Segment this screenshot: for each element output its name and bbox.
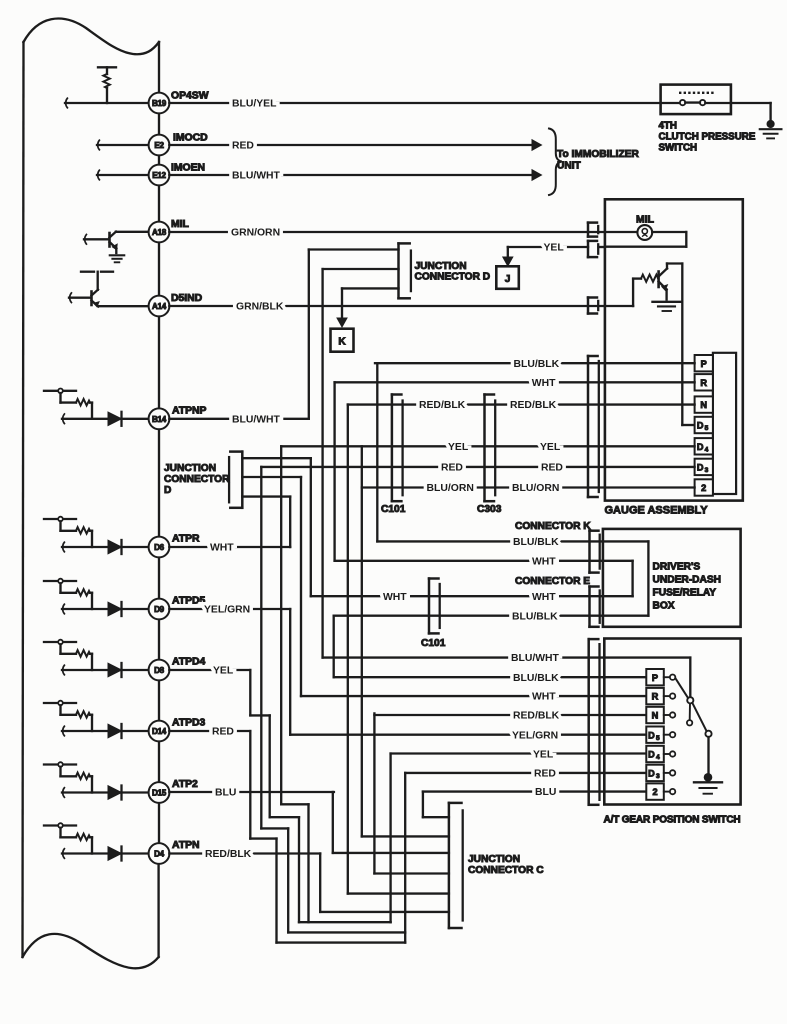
wire-break mark E12 [98, 170, 100, 180]
wire D9 stub [62, 604, 149, 614]
svg-text:RED: RED [441, 463, 463, 474]
wire WHT D6 [169, 546, 290, 548]
svg-text:ATPNP: ATPNP [172, 406, 207, 417]
svg-text:P: P [652, 673, 658, 683]
label C101 lower [421, 638, 446, 649]
transistor Q-A18 [110, 232, 118, 250]
ECM pin bus vertical wire [157, 42, 160, 957]
label IMOCD [173, 133, 208, 144]
wire BLU/YEL B19 to 4th clutch pressure switch [169, 102, 660, 104]
pin D4 [149, 843, 170, 864]
wire-break mark B19 [66, 98, 68, 108]
ECM boundary torn bottom edge [23, 934, 159, 968]
wire bottom row c [277, 941, 406, 943]
svg-text:D8: D8 [154, 666, 165, 675]
diode D-D4 [108, 847, 122, 861]
svg-text:BLU/ORN: BLU/ORN [512, 483, 559, 494]
label MIL pin [171, 219, 190, 230]
svg-text:D5IND: D5IND [171, 293, 203, 304]
svg-text:RED/BLK: RED/BLK [513, 711, 560, 722]
wire Q-gauge collector to D5 box [667, 264, 695, 426]
svg-text:IMOCD: IMOCD [173, 133, 208, 144]
wire lane A/T RED riser [404, 773, 406, 943]
wire D15 stub [62, 788, 149, 798]
wire BLU/BLK to connector K [377, 540, 603, 542]
pin D8 [149, 660, 170, 681]
wire junction connector C pin1 row [423, 816, 449, 818]
svg-text:FUSE/RELAY: FUSE/RELAY [653, 588, 717, 599]
label BLU/BLK connector K [513, 537, 559, 548]
label YEL/GRN A/T [512, 730, 558, 741]
label RED/BLK after C303 [510, 400, 557, 411]
diode D-D6 [108, 540, 122, 554]
label WHT connector E [532, 592, 556, 603]
label WHT A/T [532, 692, 556, 703]
wire junction D-left pin2 to A/T WHT lane [242, 477, 301, 696]
pin E2 [149, 135, 170, 156]
wire E12 stub [97, 174, 149, 176]
label BLU/ORN C101-C303 [427, 483, 474, 494]
resistor pull-up B19 [98, 67, 116, 103]
wire YEL to gauge D4 [281, 445, 694, 447]
svg-text:RED: RED [212, 727, 234, 738]
wire driver's box outer loop [603, 541, 649, 615]
pin D6 [149, 537, 170, 558]
svg-text:D4: D4 [154, 850, 165, 859]
wire RED/BLK to A/T switch [374, 714, 646, 716]
connector C303 [485, 395, 496, 502]
label WHT connector K [532, 556, 556, 567]
svg-text:K: K [338, 337, 346, 348]
svg-text:WHT: WHT [532, 378, 556, 389]
svg-text:B19: B19 [152, 99, 167, 108]
wire lane RED/BLK C101 to junction connector C pin5 [347, 405, 349, 894]
wire RED/BLK to gauge N [348, 403, 695, 405]
4th clutch switch contact dots [679, 92, 714, 94]
transistor Q-A18 base wire [84, 235, 109, 245]
junction box J [496, 266, 519, 289]
4th clutch switch terminal left [661, 100, 686, 105]
label DRIVER'S UNDER-DASH FUSE/RELAY BOX [653, 562, 721, 612]
svg-text:RED/BLK: RED/BLK [205, 849, 252, 860]
svg-text:D14: D14 [152, 727, 167, 736]
label ATPD3 [172, 718, 206, 729]
label JUNCTION CONNECTOR C [468, 854, 544, 876]
svg-text:GAUGE ASSEMBLY: GAUGE ASSEMBLY [605, 505, 709, 517]
wire lane BLU/ORN to junction connector C pin2 [361, 446, 363, 836]
svg-text:2: 2 [701, 483, 706, 493]
resistor gauge base [641, 275, 659, 282]
svg-text:YEL: YEL [448, 442, 469, 453]
arrow into J [503, 257, 513, 266]
svg-text:ATPR: ATPR [172, 534, 200, 545]
label GRN/BLK [236, 302, 284, 313]
pin E12 [149, 165, 170, 186]
label YEL/GRN D9 [204, 605, 250, 616]
svg-text:OP4SW: OP4SW [171, 91, 209, 102]
wire GRN/BLK A14 to gauge assembly [169, 305, 605, 307]
svg-text:WHT: WHT [210, 543, 234, 554]
wire WHT to connector E [311, 595, 603, 597]
svg-text:WHT: WHT [383, 592, 407, 603]
label BLU/YEL [232, 99, 277, 110]
transistor Q-A14 base wire [69, 293, 91, 303]
svg-text:MIL: MIL [171, 219, 190, 230]
wire driver's box inner loop [603, 561, 633, 596]
wire BLU/WHT to A/T switch [323, 656, 605, 658]
transistor Q-gauge [659, 269, 668, 291]
label BLU/BLK A/T [513, 673, 559, 684]
svg-text:CONNECTOR K: CONNECTOR K [515, 521, 591, 532]
svg-text:ATPD4: ATPD4 [172, 657, 206, 668]
svg-text:N: N [700, 400, 707, 410]
svg-text:YEL: YEL [213, 666, 234, 677]
wire MIL loop right and return [605, 232, 686, 247]
wire A/T common feed [604, 658, 690, 698]
junction connector D top [399, 243, 411, 298]
wire BLU/BLK to gauge P [375, 362, 695, 364]
svg-text:D: D [648, 769, 655, 779]
a/t pin bracket [589, 639, 600, 805]
svg-text:E12: E12 [152, 171, 166, 180]
svg-text:R: R [700, 378, 707, 388]
label RED after C303 [541, 463, 563, 474]
label A/T GEAR POSITION SWITCH [604, 815, 741, 826]
svg-text:N: N [652, 711, 659, 721]
label YEL to J [544, 243, 565, 254]
wire B19 stub [65, 102, 149, 104]
wire RED/BLK D4 [169, 852, 320, 854]
label ATP2 [172, 779, 198, 790]
label RED wire E2 [232, 141, 254, 152]
svg-text:UNDER-DASH: UNDER-DASH [653, 575, 721, 586]
gauge range pin header outer box [713, 353, 736, 494]
label RED/BLK D4 [205, 849, 252, 860]
wire MIL loop top [605, 231, 638, 233]
label BLU/WHT wire E12 [232, 171, 281, 182]
label ATPNP [172, 406, 207, 417]
wire BLU/WHT B14 [169, 418, 308, 420]
label BLU/BLK connector E [512, 611, 558, 622]
label RED A/T [534, 769, 556, 780]
svg-text:BLU/BLK: BLU/BLK [513, 673, 559, 684]
svg-text:R: R [652, 692, 659, 702]
svg-text:YEL: YEL [544, 243, 565, 254]
label GAUGE ASSEMBLY [605, 505, 709, 517]
driver's under-dash fuse/relay box [603, 529, 741, 627]
label ATPD4 [172, 657, 206, 668]
wire YEL jog lane from D8 [250, 670, 299, 922]
wire E2 stub [97, 144, 149, 146]
wire lane A/T RED/BLK to junction connector C pin4 [373, 713, 375, 873]
wire junction connector D to K [342, 288, 399, 318]
pin B14 [149, 408, 170, 429]
wire B14 stub [62, 414, 149, 424]
a/t switch contacts [664, 675, 676, 795]
transistor Q-A14 [92, 290, 100, 307]
svg-text:4TH: 4TH [659, 121, 678, 132]
gauge range pin boxes P R N D5 D4 D3 2 [695, 355, 713, 496]
svg-text:BLU: BLU [535, 787, 556, 798]
resistor pull-up D14 [44, 701, 92, 731]
wire YEL from gauge to J [508, 247, 605, 257]
svg-text:4: 4 [656, 754, 660, 761]
svg-text:RED: RED [541, 463, 563, 474]
connector K bracket [590, 531, 600, 573]
svg-text:A18: A18 [152, 228, 167, 237]
a/t switch wiper arm [676, 679, 712, 737]
label RED D14 [212, 727, 234, 738]
label IMOEN [171, 163, 205, 174]
pin D14 [149, 721, 170, 742]
svg-text:JUNCTION: JUNCTION [415, 261, 467, 272]
svg-text:UNIT: UNIT [557, 161, 582, 172]
pin A14 [149, 296, 170, 317]
ground 4th clutch switch [760, 120, 782, 138]
svg-text:CLUTCH PRESSURE: CLUTCH PRESSURE [659, 132, 756, 143]
resistor pull-up D9 [44, 579, 92, 609]
svg-text:BLU/ORN: BLU/ORN [427, 483, 474, 494]
junction connector C [449, 803, 463, 928]
svg-text:C303: C303 [477, 504, 502, 515]
ECM boundary torn top edge [24, 19, 160, 55]
svg-text:BLU/WHT: BLU/WHT [232, 171, 281, 182]
svg-text:3: 3 [656, 773, 660, 780]
arrow into K [337, 318, 347, 327]
wire bottom row b [288, 931, 405, 933]
svg-text:YEL/GRN: YEL/GRN [512, 730, 558, 741]
label GRN/ORN [231, 228, 280, 239]
svg-text:BLU/BLK: BLU/BLK [514, 359, 560, 370]
wire D8 stub [62, 665, 149, 675]
svg-text:CONNECTOR: CONNECTOR [164, 474, 230, 485]
label C101 upper [381, 504, 406, 515]
label D5IND [171, 293, 203, 304]
svg-text:RED: RED [232, 141, 254, 152]
wire-break mark E2 [98, 140, 100, 150]
svg-text:SWITCH: SWITCH [659, 143, 698, 154]
svg-text:BLU/BLK: BLU/BLK [512, 611, 558, 622]
wire Q-A18 collector to pin [116, 231, 149, 233]
svg-text:BLU/WHT: BLU/WHT [232, 414, 281, 425]
wire BLU junction connector C to A/T 2 [423, 792, 646, 818]
wire bottom row a [299, 921, 391, 923]
label BLU A/T [535, 787, 556, 798]
junction box K [331, 329, 354, 352]
pin bracket MIL bottom [588, 241, 598, 257]
resistor pull-up D8 [44, 640, 92, 670]
wire Q-gauge emitter [665, 290, 667, 300]
connector C101 lower [429, 579, 440, 634]
label YEL D8 [213, 666, 234, 677]
wire WHT to gauge R [335, 381, 695, 383]
pin bracket MIL top [588, 223, 598, 237]
label BLU D15 [215, 788, 236, 799]
svg-text:BLU/BLK: BLU/BLK [513, 537, 559, 548]
svg-text:YEL: YEL [533, 750, 554, 761]
wire RED to A/T switch [405, 772, 646, 774]
wire Q-A14 collector rail [81, 272, 113, 290]
svg-text:RED/BLK: RED/BLK [419, 400, 466, 411]
brace to immobilizer unit [549, 129, 562, 196]
svg-text:D15: D15 [152, 789, 167, 798]
wire D14 stub [62, 726, 149, 736]
label YEL A/T [533, 750, 554, 761]
diode D-B14 [108, 412, 122, 426]
svg-text:JUNCTION: JUNCTION [468, 854, 520, 865]
wire RED lane from C101 [261, 467, 288, 933]
svg-text:DRIVER'S: DRIVER'S [653, 562, 701, 573]
svg-text:C101: C101 [381, 504, 406, 515]
resistor pull-up B14 [44, 389, 92, 419]
wire RED/BLK lane to junction connector C pin6 [319, 854, 321, 912]
svg-text:C101: C101 [421, 638, 446, 649]
ECM boundary left edge wire [23, 42, 24, 957]
wire lane BLU/BLK connector E to A/T [333, 616, 335, 678]
svg-text:2: 2 [652, 787, 657, 797]
svg-text:5: 5 [705, 425, 709, 432]
label C303 [477, 504, 502, 515]
wire junction connector C pin5 row [348, 892, 449, 894]
label 4TH CLUTCH PRESSURE SWITCH [659, 121, 756, 154]
wire YEL to A/T switch [391, 752, 647, 754]
wire YEL lane up to C101 [281, 446, 308, 922]
wire junction connector D to A/T switch BLU/WHT lane [323, 269, 399, 658]
label WHT gauge [532, 378, 556, 389]
svg-text:BOX: BOX [653, 601, 675, 612]
wire BLU/BLK to A/T switch [334, 676, 647, 678]
pin D15 [149, 782, 170, 803]
wire RED D14 [169, 730, 250, 732]
wire YEL D8 [169, 669, 250, 671]
svg-text:IMOEN: IMOEN [171, 163, 205, 174]
svg-text:BLU: BLU [215, 788, 236, 799]
wire RED E2 to immobilizer [169, 144, 531, 146]
wire YEL/GRN lane to A/T [289, 609, 291, 735]
svg-text:MIL: MIL [636, 215, 655, 226]
svg-text:ATPD5: ATPD5 [172, 596, 206, 607]
label CONNECTOR K [515, 521, 591, 532]
wire junction D-left pin1 to C101-lower lane [242, 458, 310, 596]
svg-text:ATPN: ATPN [172, 840, 200, 851]
diode D-D8 [108, 663, 122, 677]
wire RED to gauge D3 [261, 466, 694, 468]
label CONNECTOR E [515, 576, 590, 587]
resistor pull-up D15 [44, 762, 92, 792]
wire BLU/ORN to gauge 2 [362, 486, 695, 488]
wire D6 stub [62, 542, 149, 552]
svg-text:CONNECTOR C: CONNECTOR C [468, 865, 544, 876]
label BLU/WHT wire B14 [232, 414, 281, 425]
wire junction connector C pin6 row [320, 911, 449, 913]
svg-text:J: J [505, 274, 511, 285]
wire 4th clutch switch to ground [731, 103, 771, 121]
connector E bracket [590, 587, 600, 627]
svg-text:A/T GEAR POSITION SWITCH: A/T GEAR POSITION SWITCH [604, 815, 741, 826]
junction connector D left [229, 452, 242, 508]
svg-text:D6: D6 [154, 543, 165, 552]
label RED/BLK C101-C303 [419, 400, 466, 411]
label BLU/ORN after C303 [512, 483, 559, 494]
label BLU/BLK gauge [514, 359, 560, 370]
svg-text:3: 3 [705, 467, 709, 474]
svg-text:WHT: WHT [532, 692, 556, 703]
wire lane A/T YEL riser [389, 754, 391, 923]
svg-text:BLU/WHT: BLU/WHT [511, 653, 560, 664]
wire BLU/WHT E12 to immobilizer [169, 174, 531, 176]
wire Q-A14 emitter to pin [98, 305, 149, 307]
wire junction connector C pin3 row [333, 852, 449, 854]
svg-text:GRN/BLK: GRN/BLK [236, 302, 284, 313]
wire junction D-left pin3 to D6 [242, 497, 290, 547]
label JUNCTION CONNECTOR D top [415, 261, 491, 283]
pin bracket D5IND [588, 298, 598, 314]
svg-text:B14: B14 [152, 415, 167, 424]
a/t gear position switch box [604, 639, 740, 805]
svg-text:4: 4 [705, 447, 709, 454]
arrow to immobilizer upper [532, 140, 542, 151]
wire BLU/WHT riser to junction connector D [309, 250, 399, 419]
label ATPD5 [172, 596, 206, 607]
diode D-D15 [108, 786, 122, 800]
label WHT C101-lower [383, 592, 407, 603]
wire D5IND inside gauge [605, 279, 641, 306]
label RED C101-C303 [441, 463, 463, 474]
label YEL C101-C303 [448, 442, 469, 453]
svg-text:ATPD3: ATPD3 [172, 718, 206, 729]
svg-text:5: 5 [656, 735, 660, 742]
svg-text:D: D [697, 442, 704, 452]
svg-text:E2: E2 [154, 141, 164, 150]
resistor pull-up D6 [44, 517, 92, 547]
svg-text:RED: RED [534, 769, 556, 780]
label OP4SW [171, 91, 209, 102]
gauge assembly box [605, 199, 743, 500]
connector C101 upper [392, 395, 403, 502]
wire YEL/GRN to A/T switch [290, 734, 646, 736]
MIL indicator lamp [637, 225, 652, 240]
wire BLU/BLK to connector E [334, 615, 603, 617]
wire WHT to connector K [335, 560, 603, 562]
label RED/BLK A/T [513, 711, 560, 722]
diode D-D14 [108, 724, 122, 738]
svg-text:To IMMOBILIZER: To IMMOBILIZER [557, 149, 640, 160]
wire GRN/ORN A18 to gauge assembly [169, 231, 605, 233]
arrow to immobilizer lower [532, 170, 542, 181]
svg-text:GRN/ORN: GRN/ORN [231, 228, 280, 239]
label JUNCTION CONNECTOR D left [164, 463, 230, 496]
wire lane WHT gauge to connector K [333, 382, 335, 561]
svg-text:CONNECTOR D: CONNECTOR D [415, 272, 491, 283]
label MIL lamp [636, 215, 655, 226]
svg-text:D: D [697, 463, 704, 473]
svg-text:D: D [648, 730, 655, 740]
svg-text:YEL/GRN: YEL/GRN [204, 605, 250, 616]
resistor pull-up D4 [44, 823, 92, 853]
svg-text:D: D [697, 421, 704, 431]
svg-text:A14: A14 [152, 302, 167, 311]
svg-text:JUNCTION: JUNCTION [164, 463, 216, 474]
wire WHT to A/T switch [301, 695, 646, 697]
ground Q-A18 [110, 255, 124, 262]
gauge pin bracket [588, 356, 599, 497]
svg-text:YEL: YEL [540, 442, 561, 453]
svg-text:RED/BLK: RED/BLK [510, 400, 557, 411]
svg-text:ATP2: ATP2 [172, 779, 198, 790]
svg-text:D9: D9 [154, 605, 165, 614]
wire Q-A18 emitter to ground [115, 248, 117, 253]
label BLU/WHT A/T [511, 653, 560, 664]
